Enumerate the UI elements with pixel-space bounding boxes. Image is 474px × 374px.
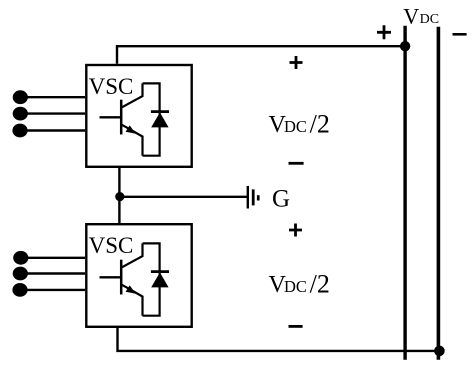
diode D1 triangle (151, 112, 168, 127)
IGBT Q2 collector wire (121, 243, 142, 267)
AC input phase dot b2 (13, 267, 28, 281)
IGBT Q1 bar (120, 100, 123, 135)
minus sign upper half (289, 162, 304, 165)
IGBT Q1 emitter wire (121, 124, 142, 155)
wire: diode D2 loop (top rail, diode branch, bottom rail) (143, 243, 160, 315)
wire phase b2 (20, 272, 85, 274)
ground symbol G: long bar (247, 186, 249, 209)
ground symbol G: short bar (257, 195, 260, 200)
plus sign at positive bus top (377, 25, 391, 39)
AC input phase dot a2 (13, 251, 28, 265)
IGBT Q2 bar (120, 260, 123, 295)
wire top: VSC1 top terminal to positive bus (117, 46, 405, 64)
ground symbol G: middle bar (252, 189, 255, 205)
AC input phase dot c2 (12, 283, 27, 297)
IGBT Q2 base wire (100, 276, 122, 278)
svg-text:VSC: VSC (89, 74, 134, 99)
minus sign lower half (289, 325, 303, 328)
junction dot: bottom wire to negative bus (434, 346, 445, 357)
wire: midpoint to ground G (120, 196, 247, 198)
wire phase a2 (21, 257, 85, 259)
wire phase a1 (20, 96, 85, 98)
diode D1 cathode bar (151, 110, 169, 113)
plus sign upper half (290, 56, 303, 69)
plus sign lower half (289, 224, 302, 237)
IGBT Q1 collector wire (121, 83, 142, 107)
AC input phase dot b1 (13, 107, 28, 121)
svg-text:/2: /2 (310, 110, 330, 139)
diode D2 cathode bar (151, 270, 169, 273)
svg-text:V: V (403, 3, 419, 28)
IGBT Q1 base wire (100, 116, 122, 118)
svg-text:DC: DC (420, 12, 439, 27)
junction dot: top wire to positive bus (400, 41, 410, 51)
diode D2 triangle (151, 272, 168, 287)
wire phase c1 (20, 129, 85, 131)
label VDC/2 lower half (269, 270, 330, 299)
label VDC (top bus voltage) (403, 3, 439, 28)
wire: diode D1 loop (top rail, diode branch, bottom rail) (143, 83, 160, 155)
wire phase b1 (20, 112, 85, 114)
IGBT Q2 emitter arrowhead (126, 285, 136, 293)
svg-text:VSC: VSC (89, 233, 134, 258)
positive DC bus bar (403, 26, 406, 360)
label VDC/2 upper half (269, 110, 330, 139)
minus sign at negative bus top (453, 33, 467, 36)
AC input phase dot a1 (13, 90, 28, 104)
VSC converter U2 box (bottom) (86, 224, 191, 327)
junction dot: midpoint node (115, 192, 124, 201)
wire bottom: VSC2 bottom terminal to negative bus (118, 328, 440, 351)
wire phase c2 (20, 289, 85, 291)
AC input phase dot c1 (12, 124, 27, 138)
svg-text:G: G (272, 185, 290, 212)
svg-text:/2: /2 (310, 270, 330, 299)
IGBT Q1 emitter arrowhead (126, 125, 136, 133)
wire: midpoint link between VSC1 and VSC2 (118, 168, 120, 223)
svg-text:DC: DC (284, 117, 307, 136)
VSC converter U1 box (top) (86, 65, 191, 167)
negative DC bus bar (437, 27, 441, 360)
svg-text:DC: DC (284, 277, 307, 296)
IGBT Q2 emitter wire (121, 284, 142, 315)
